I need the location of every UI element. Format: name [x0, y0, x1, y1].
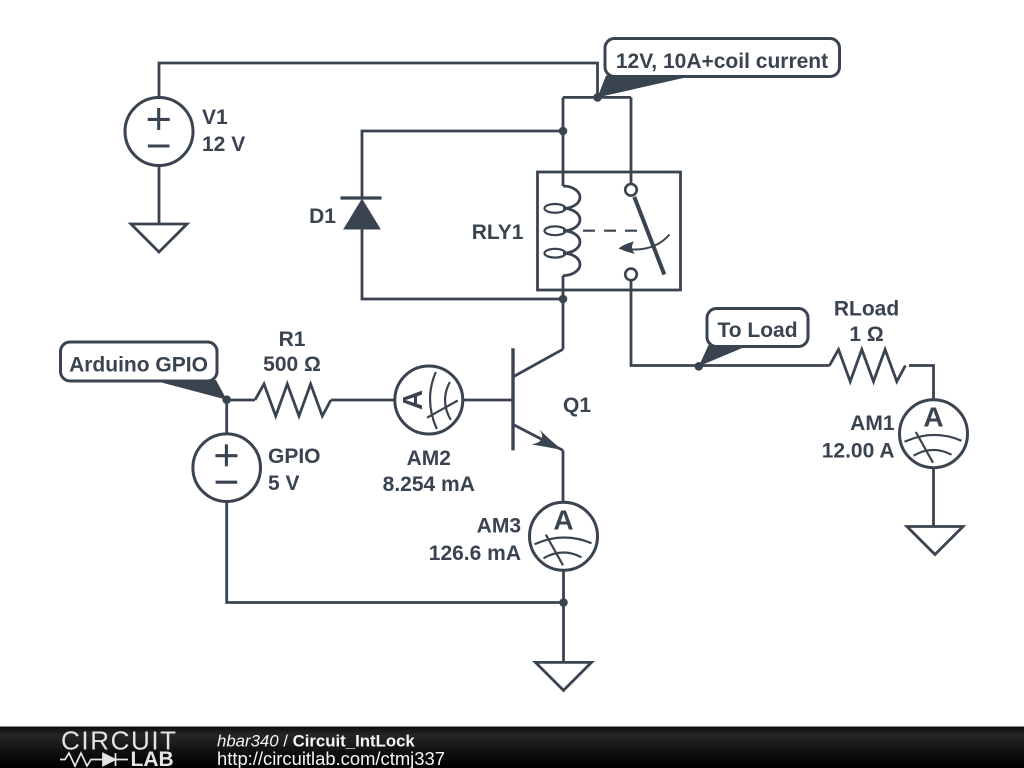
ground below AM3: [536, 662, 592, 690]
svg-text:GPIO: GPIO: [268, 445, 321, 468]
wire D1 top branch: [362, 131, 563, 198]
svg-text:12 V: 12 V: [202, 133, 245, 156]
svg-text:Q1: Q1: [563, 394, 591, 417]
wire emitter to AM3: [562, 450, 565, 502]
wire AM1 to ground: [932, 468, 935, 527]
svg-text:1 Ω: 1 Ω: [849, 323, 883, 346]
resistor R1: [255, 384, 331, 416]
svg-text:To Load: To Load: [717, 319, 797, 342]
node F dot: [695, 362, 704, 371]
wire D1 bottom branch: [362, 229, 563, 299]
ammeter AM1: [900, 400, 968, 468]
svg-text:12V, 10A+coil current: 12V, 10A+coil current: [616, 50, 828, 73]
footer bar: [0, 727, 1024, 768]
wire coil bottom to node C: [562, 290, 565, 299]
callout To Load: [699, 309, 808, 367]
node D dot: [222, 395, 231, 404]
wire GPIO bottom to node E: [227, 502, 564, 603]
wire node D to R1: [227, 399, 255, 402]
svg-text:AM2: AM2: [407, 447, 451, 470]
relay switch contacts: [625, 184, 637, 280]
ground below V1: [131, 224, 187, 252]
wire switch top vertical: [630, 97, 633, 184]
wire V1 to ground: [158, 166, 161, 225]
svg-text:http://circuitlab.com/ctmj337: http://circuitlab.com/ctmj337: [217, 748, 445, 768]
svg-text:RLoad: RLoad: [834, 298, 899, 321]
node A dot: [593, 93, 602, 102]
wire switch to To-Load and RLoad: [631, 280, 830, 365]
ammeter AM3: [530, 502, 598, 570]
wire node D to GPIO top: [225, 400, 228, 434]
svg-text:D1: D1: [309, 205, 336, 228]
svg-text:Arduino GPIO: Arduino GPIO: [69, 354, 208, 377]
wire R1 to AM2: [331, 399, 395, 402]
resistor RLoad: [830, 350, 906, 382]
svg-text:5 V: 5 V: [268, 472, 300, 495]
CircuitLab logo wordmark: [60, 726, 178, 768]
svg-text:126.6 mA: 126.6 mA: [429, 542, 521, 565]
wire base from AM2: [463, 399, 512, 402]
wire coil-top horizontal: [563, 96, 631, 99]
relay switch blade: [634, 197, 664, 275]
ground below AM1: [907, 527, 963, 555]
node C dot: [559, 295, 568, 304]
wire collector vertical: [562, 299, 565, 349]
svg-text:AM3: AM3: [477, 515, 521, 538]
callout 12V, 10A+coil current: [598, 39, 840, 98]
wire V1 top to node A: [159, 63, 598, 98]
svg-text:500 Ω: 500 Ω: [263, 353, 321, 376]
voltage source V1: [125, 98, 193, 166]
node B dot: [559, 127, 568, 136]
relay RLY1 box: [538, 172, 681, 290]
svg-text:V1: V1: [202, 106, 228, 129]
relay dashed link: [583, 230, 638, 232]
wire RLoad to AM1: [909, 366, 934, 401]
ammeter AM2: [395, 366, 463, 434]
wire node E to ground: [562, 603, 565, 663]
transistor Q1: [513, 348, 563, 450]
callout Arduino GPIO: [61, 342, 227, 400]
relay actuate arrow: [619, 235, 670, 255]
wire AM3 to node E: [562, 571, 565, 603]
svg-text:AM1: AM1: [850, 412, 895, 435]
wire coil top vertical: [562, 97, 565, 172]
svg-text:RLY1: RLY1: [472, 221, 524, 244]
svg-text:R1: R1: [279, 328, 306, 351]
svg-text:12.00 A: 12.00 A: [822, 440, 895, 463]
svg-text:8.254 mA: 8.254 mA: [383, 473, 475, 496]
relay coil: [545, 172, 581, 290]
node E dot: [559, 598, 568, 607]
svg-text:LAB: LAB: [131, 748, 174, 768]
voltage source GPIO: [193, 434, 261, 502]
diode D1: [341, 198, 382, 229]
